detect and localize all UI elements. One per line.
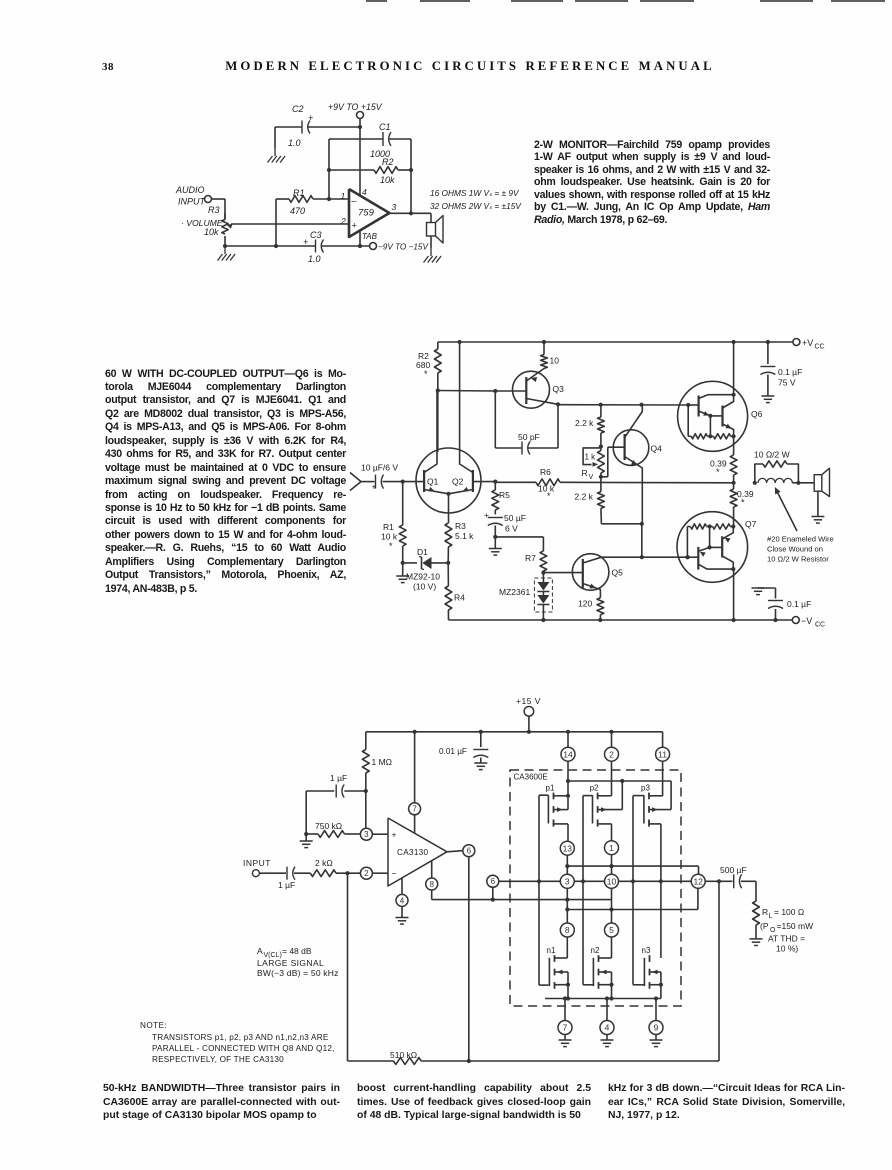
svg-text:Q4: Q4 <box>651 444 663 454</box>
svg-text:32 OHMS 2W Vₛ = ±15V: 32 OHMS 2W Vₛ = ±15V <box>430 201 522 211</box>
svg-text:CA3600E: CA3600E <box>514 773 548 782</box>
svg-text:−9V TO −15V: −9V TO −15V <box>378 243 429 252</box>
svg-text:+9V TO +15V: +9V TO +15V <box>328 102 383 112</box>
svg-text:AUDIO: AUDIO <box>175 185 205 195</box>
svg-text:Q1: Q1 <box>427 477 439 487</box>
svg-text:*: * <box>547 491 551 501</box>
svg-text:p2: p2 <box>590 784 599 793</box>
svg-text:2.2 k: 2.2 k <box>575 418 594 428</box>
svg-text:TRANSISTORS p1, p2, p3 AND n1,: TRANSISTORS p1, p2, p3 AND n1,n2,n3 ARE <box>152 1033 329 1042</box>
svg-text:75 V: 75 V <box>778 378 796 388</box>
svg-text:LARGE SIGNAL: LARGE SIGNAL <box>257 958 324 968</box>
svg-text:0.1 µF: 0.1 µF <box>778 367 802 377</box>
svg-text:Q3: Q3 <box>553 384 565 394</box>
svg-text:16 OHMS 1W Vₛ = ± 9V: 16 OHMS 1W Vₛ = ± 9V <box>430 188 520 198</box>
svg-text:#20 Enameled Wire: #20 Enameled Wire <box>767 535 834 544</box>
svg-text:NOTE:: NOTE: <box>140 1021 167 1030</box>
svg-text:10: 10 <box>607 876 617 886</box>
svg-text:0.01 µF: 0.01 µF <box>439 747 467 756</box>
svg-text:3: 3 <box>565 876 570 886</box>
svg-text:(P: (P <box>760 921 769 931</box>
svg-text:1.0: 1.0 <box>308 254 321 264</box>
svg-text:C2: C2 <box>292 104 304 114</box>
svg-text:+V: +V <box>802 338 813 348</box>
svg-text:1 µF: 1 µF <box>330 773 347 783</box>
svg-text:n3: n3 <box>642 946 651 955</box>
svg-text:+: + <box>392 830 397 840</box>
svg-text:R1: R1 <box>293 188 305 198</box>
svg-text:750 kΩ: 750 kΩ <box>315 821 342 831</box>
svg-text:6: 6 <box>491 877 496 886</box>
svg-text:= 48 dB: = 48 dB <box>282 946 312 956</box>
svg-text:*: * <box>424 369 428 379</box>
svg-text:p1: p1 <box>546 784 555 793</box>
svg-text:n2: n2 <box>591 946 600 955</box>
svg-text:(10 V): (10 V) <box>413 582 436 592</box>
svg-text:500 µF: 500 µF <box>720 865 747 875</box>
svg-text:*: * <box>389 541 393 551</box>
svg-text:A: A <box>257 946 263 956</box>
svg-text:RESPECTIVELY, OF THE CA3130: RESPECTIVELY, OF THE CA3130 <box>152 1055 284 1064</box>
svg-text:n1: n1 <box>547 946 556 955</box>
svg-text:Close Wound on: Close Wound on <box>767 545 823 554</box>
svg-text:R2: R2 <box>382 157 394 167</box>
svg-text:Q2: Q2 <box>452 477 464 487</box>
svg-text:R6: R6 <box>540 467 551 477</box>
svg-text:−V: −V <box>801 616 812 626</box>
svg-text:10: 10 <box>550 356 560 366</box>
svg-text:2.2 k: 2.2 k <box>575 492 594 502</box>
svg-text:Q5: Q5 <box>612 568 624 578</box>
svg-text:510 kΩ: 510 kΩ <box>390 1050 417 1060</box>
svg-text:TAB: TAB <box>362 232 378 241</box>
svg-text:1: 1 <box>609 843 614 853</box>
svg-text:4: 4 <box>362 187 367 197</box>
svg-text:R1: R1 <box>383 522 394 532</box>
svg-text:3: 3 <box>364 830 369 839</box>
svg-text:10 Ω/2 W: 10 Ω/2 W <box>754 450 790 460</box>
svg-text:= 100 Ω: = 100 Ω <box>774 907 804 917</box>
svg-text:INPUT: INPUT <box>178 197 207 207</box>
svg-text:5: 5 <box>609 925 614 935</box>
svg-text:=150 mW: =150 mW <box>777 921 814 931</box>
svg-text:BW(−3 dB) = 50 kHz: BW(−3 dB) = 50 kHz <box>257 968 339 978</box>
svg-text:1 k: 1 k <box>585 453 597 462</box>
svg-text:−: − <box>392 869 397 879</box>
svg-text:*: * <box>716 467 720 477</box>
svg-text:4: 4 <box>605 1023 610 1033</box>
svg-text:10k: 10k <box>204 227 219 237</box>
svg-text:R4: R4 <box>454 593 465 603</box>
svg-text:1 µF: 1 µF <box>278 880 295 890</box>
svg-text:6 V: 6 V <box>505 524 518 534</box>
svg-text:1: 1 <box>341 191 346 201</box>
svg-text:C1: C1 <box>379 122 391 132</box>
svg-text:C3: C3 <box>310 230 322 240</box>
svg-text:CC: CC <box>815 622 825 629</box>
svg-text:5.1 k: 5.1 k <box>455 531 474 541</box>
svg-text:INPUT: INPUT <box>243 858 271 868</box>
svg-text:11: 11 <box>658 749 667 759</box>
svg-text:R3: R3 <box>455 521 466 531</box>
svg-text:+: + <box>308 113 313 123</box>
svg-text:R5: R5 <box>499 490 510 500</box>
svg-text:R: R <box>582 468 588 478</box>
svg-text:10 k: 10 k <box>381 532 398 542</box>
svg-text:+: + <box>484 510 489 520</box>
svg-text:9: 9 <box>654 1023 659 1033</box>
svg-text:50 µF: 50 µF <box>504 513 526 523</box>
svg-text:4: 4 <box>400 896 405 905</box>
svg-text:10k: 10k <box>380 175 395 185</box>
svg-text:PARALLEL - CONNECTED WITH Q8 A: PARALLEL - CONNECTED WITH Q8 AND Q12, <box>152 1044 335 1053</box>
svg-text:L: L <box>769 913 773 920</box>
svg-text:120: 120 <box>578 599 592 609</box>
svg-text:+: + <box>352 221 357 231</box>
svg-text:8: 8 <box>565 925 570 935</box>
svg-text:R3: R3 <box>208 205 220 215</box>
svg-text:2: 2 <box>364 869 369 878</box>
svg-text:1.0: 1.0 <box>288 138 301 148</box>
svg-text:MZ2361: MZ2361 <box>499 587 530 597</box>
svg-text:2 kΩ: 2 kΩ <box>315 858 333 868</box>
svg-text:10 Ω/2 W Resistor: 10 Ω/2 W Resistor <box>767 555 829 564</box>
svg-text:p3: p3 <box>641 784 650 793</box>
svg-text:Q7: Q7 <box>745 519 757 529</box>
svg-text:50 pF: 50 pF <box>518 432 540 442</box>
svg-text:R: R <box>762 907 768 917</box>
svg-text:470: 470 <box>290 206 305 216</box>
svg-text:6: 6 <box>467 847 472 856</box>
svg-text:D1: D1 <box>417 547 428 557</box>
svg-text:MZ92-10: MZ92-10 <box>406 572 440 582</box>
svg-text:8: 8 <box>429 880 434 889</box>
svg-text:AT THD =: AT THD = <box>768 934 805 944</box>
svg-text:759: 759 <box>358 208 375 219</box>
svg-text:*: * <box>741 498 745 508</box>
svg-text:2: 2 <box>609 749 614 759</box>
svg-text:CC: CC <box>815 344 825 351</box>
svg-text:Q6: Q6 <box>751 409 763 419</box>
svg-text:CA3130: CA3130 <box>397 848 429 857</box>
svg-text:–: – <box>351 196 358 206</box>
svg-text:3: 3 <box>392 202 397 212</box>
svg-text:0.1 µF: 0.1 µF <box>787 599 811 609</box>
svg-text:1 MΩ: 1 MΩ <box>372 757 393 767</box>
svg-text:7: 7 <box>563 1023 568 1033</box>
svg-text:10 µF/6 V: 10 µF/6 V <box>361 463 398 473</box>
svg-text:10 %): 10 %) <box>776 944 798 954</box>
svg-text:0.39: 0.39 <box>737 489 754 499</box>
svg-text:+: + <box>372 482 377 492</box>
svg-text:+15 V: +15 V <box>516 696 541 706</box>
svg-text:12: 12 <box>693 876 703 886</box>
svg-text:7: 7 <box>412 805 417 814</box>
svg-text:13: 13 <box>563 843 573 853</box>
svg-text:R7: R7 <box>525 553 536 563</box>
svg-text:V: V <box>589 474 594 481</box>
svg-text:+: + <box>303 237 308 247</box>
svg-text:14: 14 <box>563 749 573 759</box>
